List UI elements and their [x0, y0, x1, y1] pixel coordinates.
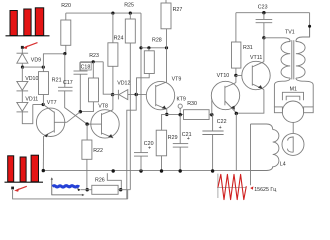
rail corner to C20 line [140, 13, 142, 153]
node VT8 base [85, 122, 88, 125]
node VD12 right / R28 bottom [135, 93, 138, 96]
svg-text:R21: R21 [52, 78, 62, 84]
node VD12 left [111, 93, 114, 96]
wire R26 left lead [81, 189, 92, 191]
transistor VT7 [36, 105, 66, 138]
resistor R26 (trimmer) [92, 185, 118, 194]
svg-text:VT7: VT7 [47, 100, 57, 106]
svg-text:R27: R27 [173, 7, 183, 13]
diode VD11 [17, 102, 29, 112]
wire L4 left leg / tap point [250, 124, 252, 185]
svg-text:R23: R23 [89, 53, 99, 59]
svg-text:+: + [187, 136, 190, 142]
resistor R29 [156, 130, 166, 156]
svg-text:R30: R30 [187, 101, 197, 107]
svg-text:C18: C18 [81, 65, 91, 71]
wire C18 node [80, 61, 103, 63]
wire marker-to-VD9 [21, 49, 23, 53]
wire R26 right lead to risers [118, 189, 130, 191]
wire VT11 collector to C23 node [263, 38, 265, 62]
wire VD10-VD11 [21, 91, 23, 103]
svg-text:C17: C17 [63, 80, 73, 86]
svg-text:R22: R22 [93, 148, 103, 154]
node R31/VT11 base/VT10 collector [234, 74, 237, 77]
node R26 right [119, 188, 122, 191]
resistor R23 [89, 78, 99, 102]
svg-text:R24: R24 [114, 36, 124, 42]
node marker square (top input) [21, 46, 24, 49]
red arrow to input point (top) [23, 43, 38, 49]
svg-text:VD11: VD11 [25, 97, 38, 103]
svg-text:R28: R28 [152, 38, 162, 44]
wire VD10 top [21, 67, 23, 81]
wire R21 top [43, 54, 64, 72]
wire R22 bottom to R26 [86, 159, 88, 189]
wire rail to R31 [235, 13, 237, 42]
node R20 bottom [63, 52, 66, 55]
motor M1 [274, 92, 313, 122]
diode VD9 [17, 53, 29, 63]
node C23 bottom / TV1 [262, 36, 265, 39]
wire VT7 emitter down [42, 136, 44, 171]
wire R30 right [209, 114, 212, 116]
wire base net horizontal [33, 104, 43, 106]
wire VD9 to junction [21, 63, 23, 67]
wire C18node corner to VD12 wire [103, 62, 112, 94]
transformer TV1 [264, 26, 313, 107]
capacitor C22 [202, 115, 223, 171]
wire R22 top [86, 124, 88, 140]
wire R28 top [148, 48, 150, 51]
R26 wiper [107, 173, 121, 190]
svg-text:R29: R29 [168, 135, 178, 141]
top rail (left) [66, 12, 141, 14]
svg-text:M1: M1 [290, 87, 297, 93]
resistor R27 [161, 3, 171, 29]
wire VT9 emitter down [166, 109, 168, 114]
wire TV1 right top riser [309, 13, 311, 37]
transistor VT8 [87, 110, 119, 138]
wire R20 top to rail [65, 13, 67, 20]
blue noise waveform inset [51, 177, 85, 196]
svg-text:R26: R26 [95, 178, 105, 184]
node R26 left [86, 188, 89, 191]
wire VT8 collector up [112, 95, 114, 110]
bottom-left red pulse waveform [5, 155, 44, 182]
node VT7 collector / C18 / R23 [79, 110, 82, 113]
svg-text:TV1: TV1 [285, 30, 295, 36]
diode VD12 [113, 90, 156, 100]
top-left red pulse waveform [6, 8, 50, 36]
svg-text:R25: R25 [124, 3, 134, 9]
wire R23 bottom L to VT7 collector node [80, 102, 93, 112]
svg-text:VT10: VT10 [217, 73, 230, 79]
capacitor C18 [74, 62, 88, 112]
bottom input bus [13, 190, 128, 199]
test point KT9 [178, 104, 182, 114]
wire R28 row [141, 47, 167, 49]
wire motor to earphone [292, 122, 294, 133]
wire VT7 collector diagonal [67, 112, 81, 123]
resistor R21 [39, 72, 49, 95]
capacitor C23 [256, 13, 273, 38]
wire R23 top [92, 62, 94, 78]
wire R21 bottom [42, 95, 44, 105]
svg-text:VT8: VT8 [98, 104, 108, 110]
red sine annotation 15625 Hz [217, 174, 247, 200]
wire emitter node right to KT9 [167, 113, 184, 115]
inductor L4 [251, 124, 279, 171]
wire R24 bottom to VD12 node [112, 66, 114, 94]
wire R25 top [129, 13, 131, 19]
wire bottom bus riser [127, 190, 129, 199]
svg-text:VD12: VD12 [117, 80, 130, 86]
wire emitter node left to R29 [162, 114, 167, 130]
wire C17 bottom diagonal to VT8 base [65, 91, 87, 124]
wire R27 top to edge [165, 0, 167, 3]
resistor R24 [108, 43, 118, 67]
svg-text:R20: R20 [61, 3, 71, 9]
transistor VT11 [242, 61, 270, 89]
svg-text:VD10: VD10 [25, 76, 38, 82]
earphone (telephone capsule) [282, 133, 304, 155]
resistor R25 [125, 19, 135, 43]
svg-text:C23: C23 [258, 5, 268, 11]
resistor R30 (horizontal) [184, 110, 210, 120]
svg-text:VD9: VD9 [31, 58, 41, 64]
wire VT10 base riser [212, 93, 225, 115]
resistor R28 [144, 51, 154, 74]
capacitor C20 [134, 153, 148, 171]
wire R31 bottom [235, 68, 237, 75]
wire VT9 collector up [166, 48, 168, 83]
wire R28 bottom bend to VD12 node [137, 74, 150, 95]
wire C17 top [64, 54, 66, 88]
svg-text:L4: L4 [280, 162, 286, 168]
wire VD11 to VT7 base net [22, 105, 33, 124]
wire rail to R24 [112, 13, 114, 43]
capacitor C21 [173, 115, 188, 171]
svg-text:VT9: VT9 [172, 77, 182, 83]
wire jumper to R21 top [23, 66, 44, 68]
svg-text:15625 Гц: 15625 Гц [254, 187, 276, 193]
wire R25 bottom long down to R26 right [129, 43, 131, 190]
svg-text:+: + [148, 146, 151, 152]
svg-text:+: + [219, 125, 222, 131]
wire VT11 emitter down to emitter bus [236, 90, 264, 114]
svg-text:VT11: VT11 [250, 55, 262, 61]
node marker square (bottom input) [11, 187, 14, 190]
node R21 bottom / VT7 base [42, 103, 45, 106]
ground/emitter bus [43, 170, 250, 172]
resistor R22 [82, 140, 92, 159]
wire emitters down to ground bus [235, 113, 237, 170]
transistor VT9 [146, 81, 174, 109]
top rail (right) [236, 12, 310, 14]
red tick at L4 tap [250, 186, 253, 189]
resistor R20 [61, 20, 71, 45]
wire R20 bottom [65, 45, 67, 53]
wire R27 bottom [166, 29, 168, 48]
transistor VT10 [211, 81, 239, 113]
svg-text:R31: R31 [243, 45, 253, 51]
diode VD10 [17, 81, 29, 91]
svg-text:КТ9: КТ9 [177, 97, 186, 103]
red arrow to input point (bottom) [14, 186, 27, 192]
wire VD12-node down (to bottom area) [127, 95, 136, 199]
wire R29 bottom [161, 156, 163, 171]
node R30 left [179, 113, 182, 116]
capacitor C17 [58, 87, 73, 91]
node VD9/VD10 junction [21, 66, 24, 69]
wire VT10 collector [235, 75, 237, 82]
wire VT11 base [236, 74, 252, 76]
resistor R31 [232, 42, 241, 68]
